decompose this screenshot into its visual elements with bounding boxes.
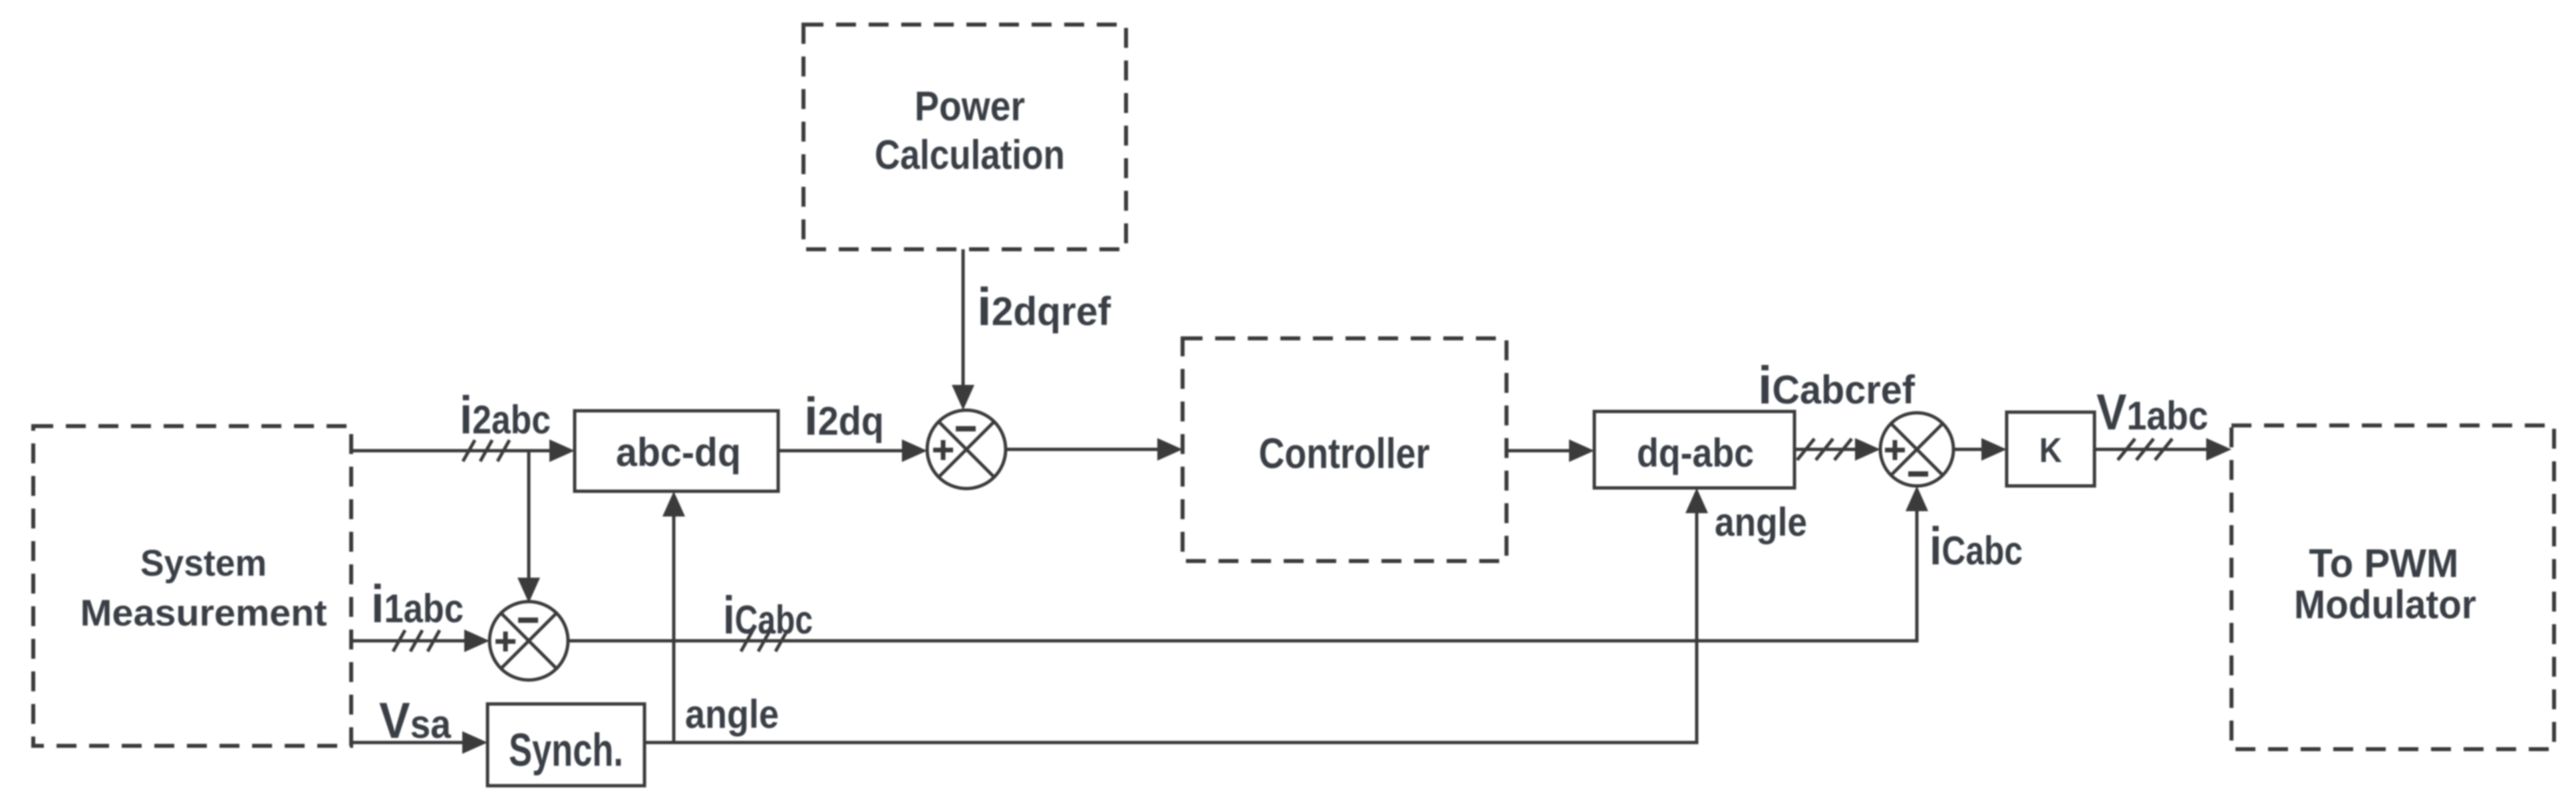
wire: i1abc from System Measurement to S1 (351, 574, 490, 652)
wire: iCabcref from dq-abc to S3 (1758, 356, 1916, 461)
wire: V1abc from K to PWM (2094, 384, 2231, 461)
dashed box: Controller (1183, 338, 1506, 561)
wire: iCabc from S1 to S3 (long feedback) (568, 486, 2023, 651)
svg-text:i2dq: i2dq (804, 387, 884, 446)
svg-text:Vsa: Vsa (379, 693, 452, 749)
dashed box: Power Calculation (803, 25, 1126, 249)
svg-text:Modulator: Modulator (2294, 582, 2476, 627)
wire: S2 to Controller (1006, 438, 1183, 461)
svg-text:System: System (140, 542, 267, 584)
svg-text:abc-dq: abc-dq (616, 430, 741, 475)
svg-text:dq-abc: dq-abc (1637, 431, 1754, 475)
block: Synch. (488, 704, 644, 786)
wire: angle branch up to abc-dq (662, 491, 779, 743)
svg-text:angle: angle (1715, 500, 1807, 544)
svg-text:i2dqref: i2dqref (977, 277, 1111, 336)
svg-text:Measurement: Measurement (80, 592, 327, 633)
svg-text:Synch.: Synch. (509, 724, 623, 776)
dashed box: System Measurement (33, 426, 351, 746)
block: dq-abc (1594, 411, 1794, 488)
svg-text:V1abc: V1abc (2096, 384, 2208, 441)
wire: Controller to dq-abc (1506, 439, 1594, 462)
wire: i2dqref from Power Calculation down to S2 (952, 249, 1111, 410)
svg-text:i2abc: i2abc (460, 386, 551, 445)
summing junction S3 (iCabcref + / iCabc -) (1880, 413, 1953, 486)
wire: i2dq from abc-dq to S2 (778, 387, 927, 462)
block: K (2007, 412, 2094, 486)
svg-text:angle: angle (685, 692, 779, 737)
svg-text:Controller: Controller (1259, 429, 1430, 477)
svg-text:iCabcref: iCabcref (1758, 356, 1916, 415)
svg-text:Calculation: Calculation (875, 132, 1065, 178)
svg-text:iCabc: iCabc (723, 586, 813, 645)
svg-text:i1abc: i1abc (371, 574, 464, 633)
svg-text:Power: Power (915, 84, 1025, 130)
wire: S3 to K (1953, 438, 2007, 461)
dashed box: To PWM Modulator (2231, 425, 2554, 749)
svg-text:K: K (2039, 431, 2062, 470)
summing junction S1 (i1abc + / i2abc -) (490, 602, 568, 680)
summing junction S2 (i2dq + / i2dqref -) (927, 410, 1006, 489)
block: abc-dq (575, 411, 778, 491)
svg-text:To PWM: To PWM (2309, 541, 2459, 586)
wire: angle from Synch. to dq-abc (644, 488, 1807, 743)
wire: Vsa from System Measurement to Synch. (351, 693, 488, 754)
wire: branch of i2abc down to S1 (517, 451, 540, 603)
wire: i2abc from System Measurement to abc-dq (351, 386, 575, 462)
svg-text:iCabc: iCabc (1930, 517, 2023, 576)
